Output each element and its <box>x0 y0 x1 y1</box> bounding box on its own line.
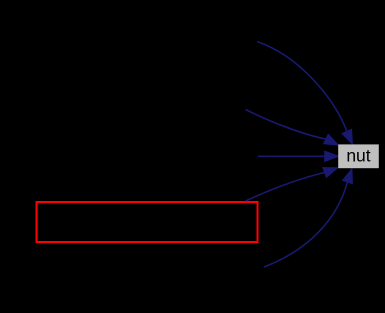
svg-text:nut: nut <box>346 146 370 166</box>
edge caller2 to nut <box>246 110 326 140</box>
node nut (current node, grey) <box>338 144 379 168</box>
edge caller1 to nut (top big curve) <box>257 42 347 132</box>
truncated caller node (red rectangle) <box>37 202 258 242</box>
edge red node to nut <box>246 173 325 202</box>
arrowhead edge3 <box>325 151 339 161</box>
arrowhead edge1 <box>342 129 352 144</box>
edge caller6 to nut (bottom big curve) <box>264 182 347 267</box>
edge caller3 to nut (horizontal) <box>258 155 325 157</box>
arrowhead edge6 <box>343 169 353 184</box>
arrowhead edge2 <box>324 134 339 145</box>
arrowhead edge5 <box>323 168 338 178</box>
